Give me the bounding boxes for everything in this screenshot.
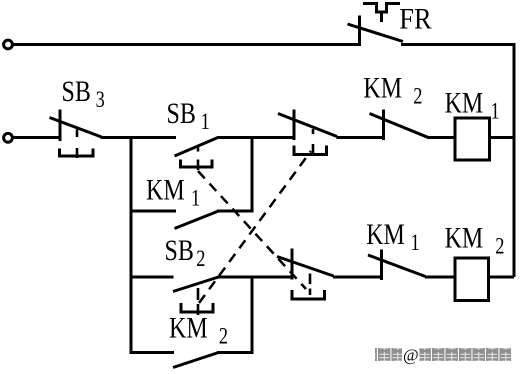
dashed mechanical link SB2	[199, 151, 311, 303]
wire row3 segment a	[131, 210, 176, 213]
wire row2 segment c	[217, 136, 294, 139]
svg-text:FR: FR	[399, 3, 431, 36]
svg-text:KM2: KM2	[169, 311, 228, 349]
wire row4 segment a	[131, 276, 174, 279]
pushbutton SB1 (NO start forward)	[175, 137, 219, 170]
wire row4 segment e	[489, 276, 515, 279]
terminal L2	[4, 133, 13, 142]
wire row5 segment b	[217, 351, 254, 354]
wire top row left	[13, 43, 359, 46]
svg-text:KM2: KM2	[445, 221, 505, 259]
wire row4 segment d	[425, 276, 455, 279]
wire row2 segment a	[13, 136, 60, 139]
svg-text:SB2: SB2	[165, 233, 206, 271]
wire row2 segment e	[429, 136, 456, 139]
contactor KM2 NO auxiliary contact	[173, 353, 219, 368]
wire row4 segment b	[217, 276, 292, 279]
wire right bus	[513, 45, 516, 278]
pushbutton SB1 NC interlock contact	[277, 249, 334, 301]
svg-text:KM1: KM1	[366, 217, 419, 255]
thermal relay FR contact	[348, 4, 404, 47]
wire row4 segment c	[333, 276, 382, 279]
wire lower loop right vertical	[251, 277, 254, 354]
dashed mechanical link SB1	[198, 171, 306, 289]
coil KM2	[455, 258, 489, 301]
contactor KM2 NC interlock contact	[370, 110, 430, 141]
wire left branch vertical	[130, 136, 133, 354]
terminal L1	[4, 40, 13, 49]
wire top row right	[401, 43, 516, 46]
wire row3 segment b	[217, 210, 254, 213]
wire row2 segment f	[490, 136, 515, 139]
watermark	[375, 346, 511, 365]
svg-text:KM1: KM1	[146, 173, 200, 211]
pushbutton SB2 NC interlock contact	[278, 110, 337, 157]
svg-text:KM2: KM2	[363, 71, 422, 109]
coil KM1	[455, 118, 490, 160]
wire row2 segment d	[337, 136, 384, 139]
wire row2 segment b	[101, 136, 177, 139]
svg-text:@: @	[403, 346, 419, 365]
wire upper loop right vertical	[251, 136, 254, 211]
contactor KM1 NO auxiliary contact	[175, 211, 219, 229]
wire row5 segment a	[131, 351, 174, 354]
pushbutton SB2 (NO start reverse)	[173, 277, 219, 315]
svg-text:SB1: SB1	[167, 96, 210, 134]
contactor KM1 NC interlock contact	[368, 250, 426, 281]
svg-text:KM1: KM1	[445, 86, 500, 124]
pushbutton SB3 (NC stop)	[50, 110, 102, 159]
svg-text:SB3: SB3	[62, 74, 105, 112]
